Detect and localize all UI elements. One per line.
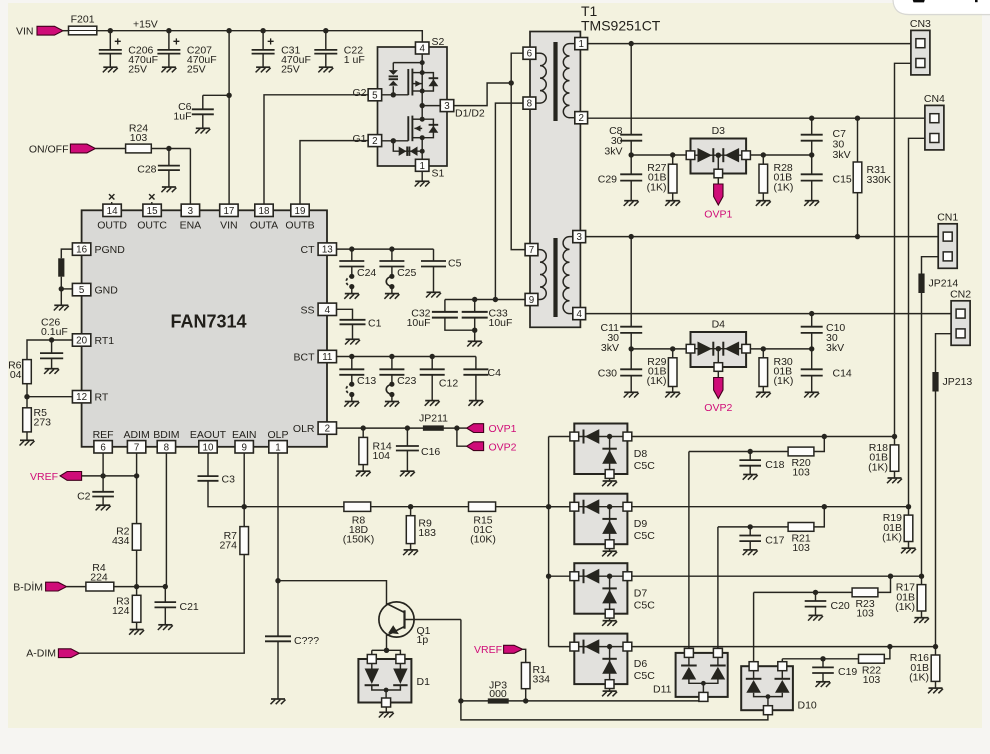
pin 7 ADIM xyxy=(123,429,149,454)
svg-text:D9: D9 xyxy=(634,518,648,530)
svg-text:(1K): (1K) xyxy=(909,672,929,684)
svg-text:D7: D7 xyxy=(634,588,648,600)
svg-text:C13: C13 xyxy=(357,375,376,387)
svg-text:JP214: JP214 xyxy=(929,278,959,290)
transformer T1 label xyxy=(581,3,661,34)
wire D9 feed xyxy=(549,506,571,508)
wire D8 line xyxy=(631,436,894,438)
resistor R18 01B (1K) xyxy=(868,434,902,483)
svg-text:25V: 25V xyxy=(281,64,300,76)
body diode lower xyxy=(422,119,438,138)
wire BDIM vertical xyxy=(165,453,167,587)
svg-text:C12: C12 xyxy=(439,378,458,390)
diode D7 C5C xyxy=(570,563,655,626)
svg-text:1uF: 1uF xyxy=(173,111,191,123)
svg-text:(1K): (1K) xyxy=(647,181,667,193)
transformer T1 body xyxy=(530,32,580,328)
wire D6 feed xyxy=(549,646,571,648)
wire D3 bus xyxy=(631,154,812,156)
svg-text:434: 434 xyxy=(112,535,130,547)
junction pin2-C7 xyxy=(809,116,814,121)
wire D8 feed xyxy=(549,436,571,438)
svg-text:1: 1 xyxy=(275,442,280,453)
resistor R2 434 xyxy=(112,524,141,551)
pin 7 xyxy=(525,244,540,257)
wire ON/OFF to R24 xyxy=(95,148,125,150)
capacitor C16 xyxy=(396,428,441,476)
node ON/OFF label xyxy=(29,143,69,155)
svg-text:12: 12 xyxy=(76,392,87,403)
wire R7 to EAIN xyxy=(243,453,245,527)
junction drain stub lower xyxy=(420,117,425,122)
transistor Q1 1p xyxy=(379,602,461,646)
resistor R7 274 xyxy=(219,527,248,555)
svg-text:3kV: 3kV xyxy=(833,149,851,161)
pin 4 SS xyxy=(300,303,336,316)
svg-text:ON/OFF: ON/OFF xyxy=(29,143,69,155)
junction C32/C33 bottom xyxy=(472,328,477,333)
junction EAIN-bus xyxy=(242,504,247,509)
junction RT node xyxy=(24,394,29,399)
junction pin2-R31 xyxy=(855,116,860,121)
capacitor C2 xyxy=(77,491,114,511)
junction GND xyxy=(59,286,64,291)
svg-text:OUTA: OUTA xyxy=(250,220,278,232)
junction pin4-C10 xyxy=(809,311,814,316)
wire Q1 top xyxy=(278,581,387,605)
junction column-D7 xyxy=(546,574,551,579)
svg-text:3: 3 xyxy=(444,101,450,112)
svg-text:S2: S2 xyxy=(432,36,445,48)
wire VIN to fuse xyxy=(63,30,69,32)
wire R6 to RT xyxy=(27,384,72,397)
svg-text:FAN7314: FAN7314 xyxy=(170,312,246,332)
input arrow VIN xyxy=(37,26,63,35)
svg-text:BCT: BCT xyxy=(294,352,316,364)
pin 1 S1 xyxy=(415,159,444,179)
junction base-wire1 xyxy=(458,698,463,703)
svg-text:C17: C17 xyxy=(765,534,784,546)
resistor R29 01B (1K) xyxy=(647,349,681,398)
capacitor C11 30 3kV xyxy=(601,237,643,354)
capacitor C14 xyxy=(801,349,852,398)
svg-text:OVP1: OVP1 xyxy=(704,209,732,221)
svg-text:+: + xyxy=(267,35,274,49)
svg-text:103: 103 xyxy=(863,674,881,686)
junction OLP-Q1 xyxy=(275,578,280,583)
junction bus2-R29 xyxy=(670,346,675,351)
svg-text:G2: G2 xyxy=(352,87,366,99)
diode D4 xyxy=(686,319,750,372)
transistor Q-lower mosfet xyxy=(408,116,422,142)
secondary winding lower xyxy=(563,237,569,314)
core bar upper xyxy=(553,42,557,121)
capacitor C25 xyxy=(379,249,416,299)
capacitor C206 470uF 25V xyxy=(99,31,158,76)
wire source to S1 xyxy=(421,138,423,160)
pin 3 ENA xyxy=(180,204,202,232)
primary winding lower xyxy=(540,250,546,300)
junction bus2-R30 xyxy=(761,346,766,351)
junction pin8-pin9 xyxy=(493,297,498,302)
wire rail to S2 xyxy=(421,30,423,42)
svg-text:SS: SS xyxy=(300,304,314,316)
junction rail-C206 xyxy=(108,28,113,33)
jumper JP211 xyxy=(419,412,448,431)
resistor R24 103 xyxy=(126,123,152,153)
svg-text:OUTD: OUTD xyxy=(97,220,127,232)
svg-text:C29: C29 xyxy=(598,173,617,185)
junction C26 tap xyxy=(49,337,54,342)
pin 12 RT xyxy=(72,391,108,404)
capacitor C1 xyxy=(340,318,382,345)
svg-text:TMS9251CT: TMS9251CT xyxy=(581,18,661,34)
svg-text:104: 104 xyxy=(373,450,391,462)
junction zener top xyxy=(420,60,425,65)
diode D3 xyxy=(686,125,750,178)
svg-text:7: 7 xyxy=(529,245,534,256)
junction BCT-C23 xyxy=(389,354,394,359)
pin 2 G1 xyxy=(352,133,381,147)
inductor ferrite bead xyxy=(58,258,64,276)
svg-text:330K: 330K xyxy=(867,174,892,186)
input arrow ON/OFF xyxy=(70,144,95,153)
wire SS row xyxy=(337,309,353,320)
core bar lower xyxy=(553,238,557,317)
svg-text:BDIM: BDIM xyxy=(153,429,179,441)
jumper JP3 000 xyxy=(488,680,509,704)
connector CN3 xyxy=(910,18,931,75)
svg-text:103: 103 xyxy=(856,607,874,619)
svg-text:CN3: CN3 xyxy=(910,18,931,30)
junction source stub xyxy=(420,89,425,94)
wire +15V rail xyxy=(97,30,423,32)
wire column vertical xyxy=(548,437,550,647)
svg-text:8: 8 xyxy=(527,99,533,110)
svg-text:274: 274 xyxy=(219,540,237,552)
resistor R14 104 xyxy=(356,428,392,476)
resistor R1 334 xyxy=(521,663,550,689)
junction source stub lower xyxy=(420,135,425,140)
wire D7 line xyxy=(631,575,921,577)
junction bus-R9 xyxy=(408,504,413,509)
resistor R9 183 xyxy=(403,507,436,555)
wire feed to pin6 xyxy=(511,53,523,83)
svg-text:(150K): (150K) xyxy=(343,533,375,545)
wire A-DIM to R7 xyxy=(79,555,244,654)
svg-text:1p: 1p xyxy=(417,634,429,646)
wire D7 feed xyxy=(549,575,571,577)
svg-text:CN1: CN1 xyxy=(937,211,958,223)
pin 1 xyxy=(570,38,588,51)
wire R4 to C21 xyxy=(114,586,166,588)
pin 20 RT1 xyxy=(72,334,114,347)
capacitor C29 xyxy=(598,155,642,206)
svg-text:RT1: RT1 xyxy=(95,335,115,347)
capacitor C13 xyxy=(339,357,376,407)
junction C28 tap xyxy=(166,146,171,151)
svg-text:25V: 25V xyxy=(128,64,147,76)
junction gate-zener lower xyxy=(391,138,396,143)
svg-text:1: 1 xyxy=(419,161,424,172)
connector CN1 xyxy=(937,211,958,268)
input arrow VREF 2 xyxy=(504,645,523,653)
wire D9 line xyxy=(631,506,908,508)
wire wire1 xyxy=(461,700,699,702)
wire GND pin xyxy=(61,288,72,290)
pin 11 BCT xyxy=(294,350,337,363)
svg-text:ENA: ENA xyxy=(180,220,202,232)
zener pair upper xyxy=(389,63,423,95)
svg-text:C5C: C5C xyxy=(634,530,655,542)
svg-text:D6: D6 xyxy=(634,658,648,670)
svg-text:0.1uF: 0.1uF xyxy=(41,326,68,338)
svg-text:C24: C24 xyxy=(357,267,376,279)
svg-text:3: 3 xyxy=(576,232,582,243)
svg-text:D3: D3 xyxy=(712,125,726,137)
wire Q1 emitter xyxy=(386,635,388,651)
wire pin4 line xyxy=(586,313,952,315)
svg-text:14: 14 xyxy=(107,206,118,217)
svg-text:OVP2: OVP2 xyxy=(704,402,732,414)
resistor R19 01B (1K) xyxy=(882,504,916,553)
junction bus-C8 xyxy=(629,152,634,157)
svg-text:VIN: VIN xyxy=(16,26,34,38)
wire pin3(fet) to primaries xyxy=(454,83,511,106)
body diode upper xyxy=(422,73,438,91)
pin 3 xyxy=(570,231,586,244)
ground D1 xyxy=(379,707,394,718)
svg-text:183: 183 xyxy=(418,527,436,539)
pin 4 S2 xyxy=(415,36,444,55)
svg-text:334: 334 xyxy=(533,674,551,686)
svg-text:D11: D11 xyxy=(653,684,672,696)
svg-text:VREF: VREF xyxy=(474,644,502,656)
svg-text:OVP1: OVP1 xyxy=(489,423,517,435)
wire BCT row xyxy=(337,356,476,358)
pin 17 VIN xyxy=(220,204,238,232)
ground below S1 xyxy=(415,171,430,186)
svg-text:OUTB: OUTB xyxy=(285,220,314,232)
svg-text:C14: C14 xyxy=(833,367,852,379)
svg-text:C19: C19 xyxy=(838,666,857,678)
wire wire2 xyxy=(461,701,768,720)
pin 3 D1/D2 xyxy=(440,100,485,120)
svg-text:OLP: OLP xyxy=(267,429,288,441)
capacitor C19 / resistor R22 103 xyxy=(782,644,892,687)
fuse F201 xyxy=(69,13,97,35)
svg-text:C???: C??? xyxy=(294,635,319,647)
wire VREF to R1 xyxy=(523,649,526,662)
svg-text:103: 103 xyxy=(792,542,810,554)
junction bus-R28 xyxy=(761,152,766,157)
svg-text:C28: C28 xyxy=(137,164,156,176)
svg-text:C3: C3 xyxy=(222,473,236,485)
wire B-DIM to R4 xyxy=(67,586,86,588)
junction D1 split xyxy=(384,648,389,653)
wire CN4 lower xyxy=(909,138,925,506)
capacitor C7 30 3kV xyxy=(801,118,851,161)
junction BDIM row C21 xyxy=(163,584,168,589)
junction rail-VIN-pin xyxy=(226,28,231,33)
svg-text:04: 04 xyxy=(10,369,22,381)
svg-text:D10: D10 xyxy=(798,700,817,712)
svg-text:10uF: 10uF xyxy=(407,317,431,329)
svg-text:VIN: VIN xyxy=(220,220,238,232)
jumper JP213 xyxy=(932,372,972,392)
svg-text:CT: CT xyxy=(301,244,316,256)
resistor R17 01B (1K) xyxy=(895,574,929,623)
svg-text:20: 20 xyxy=(76,336,87,347)
svg-text:25V: 25V xyxy=(187,64,206,76)
wire pin2 line xyxy=(588,117,925,119)
diode D6 C5C xyxy=(570,634,655,697)
capacitor C33 10uF xyxy=(462,300,513,331)
wire Q1 base down xyxy=(460,620,462,701)
node OVP2 label xyxy=(489,441,517,453)
wire R1 to wire1 xyxy=(525,689,527,701)
wire bus through D3 xyxy=(0,0,1,1)
resistor R8 18D (150K) xyxy=(343,502,375,545)
pin 8 BDIM xyxy=(153,429,179,454)
svg-text:C5C: C5C xyxy=(634,670,655,682)
node A-DIM label xyxy=(26,648,56,660)
capacitor C3 xyxy=(198,473,236,485)
svg-text:19: 19 xyxy=(295,206,306,217)
junction OLR-C16 xyxy=(405,425,410,430)
capacitor C24 xyxy=(339,249,376,299)
svg-text:VREF: VREF xyxy=(30,471,58,483)
input arrow B-DIM xyxy=(46,582,67,591)
junction gate-zener upper xyxy=(391,92,396,97)
diode D1 xyxy=(358,650,430,707)
wire R15 to column xyxy=(496,506,571,508)
resistor R15 01C (10K) xyxy=(469,502,496,545)
svg-text:RT: RT xyxy=(95,392,109,404)
capacitor C18 / resistor R20 103 xyxy=(689,434,827,652)
capacitor C5 xyxy=(421,249,462,297)
wire OUTB to G1 xyxy=(300,141,368,205)
svg-text:16: 16 xyxy=(76,245,87,256)
svg-text:(1K): (1K) xyxy=(895,601,915,613)
ground R5 xyxy=(20,432,35,446)
wire OVP1 stub xyxy=(457,427,467,429)
diode D11 xyxy=(653,648,728,701)
junction primary feed xyxy=(509,80,514,85)
svg-text:7: 7 xyxy=(134,442,139,453)
pin 5 G2 xyxy=(352,87,381,101)
op-amp U1 FAN7314 body xyxy=(82,210,327,446)
node B-DIM label xyxy=(13,581,43,594)
junction bus-C15 xyxy=(809,152,814,157)
capacitor C8 30 3kV xyxy=(604,44,642,158)
svg-text:4: 4 xyxy=(419,44,425,55)
zener pair lower xyxy=(393,141,422,156)
capacitor C15 xyxy=(801,155,852,206)
svg-text:CN2: CN2 xyxy=(950,288,971,300)
pin 5 GND xyxy=(72,283,118,296)
junction C33 top xyxy=(472,297,477,302)
junction BDIM row R3 xyxy=(134,584,139,589)
wire R24 to ENA xyxy=(151,149,190,205)
resistor R16 01B (1K) xyxy=(909,644,943,693)
node VREF label xyxy=(30,471,58,483)
svg-text:CN4: CN4 xyxy=(924,93,945,105)
svg-text:+15V: +15V xyxy=(133,18,158,30)
svg-text:+: + xyxy=(173,35,180,49)
svg-text:4: 4 xyxy=(325,305,331,316)
svg-text:13: 13 xyxy=(322,245,333,256)
pin 1 OLP xyxy=(267,429,288,454)
svg-text:11: 11 xyxy=(322,352,332,363)
svg-text:ADIM: ADIM xyxy=(123,429,149,441)
capacitor C23 xyxy=(379,357,416,407)
capacitor C10 30 3kV xyxy=(801,314,846,354)
svg-text:C30: C30 xyxy=(598,367,617,379)
pin 9 xyxy=(525,293,540,306)
jumper JP214 xyxy=(918,274,958,294)
svg-text:G1: G1 xyxy=(352,133,366,145)
wire CN2 lower xyxy=(936,334,952,647)
svg-text:C2: C2 xyxy=(77,491,91,503)
wire EAOUT to C3 xyxy=(207,453,209,476)
wire OLR row xyxy=(337,427,457,429)
junction zener-S1 xyxy=(420,149,425,154)
resistor R30 01B (1K) xyxy=(756,349,794,398)
svg-text:103: 103 xyxy=(130,132,148,144)
capacitor C6 1uF xyxy=(173,95,213,133)
capacitor C30 xyxy=(598,349,642,398)
svg-text:9: 9 xyxy=(241,442,246,453)
capacitor C31 470uF 25V xyxy=(252,31,311,76)
svg-text:C16: C16 xyxy=(421,446,440,458)
pin 2 OLR xyxy=(293,422,337,435)
junction VREF-ADIM xyxy=(134,473,139,478)
connector CN4 xyxy=(924,93,945,150)
svg-text:3kV: 3kV xyxy=(604,145,622,157)
transistor Q-upper mosfet xyxy=(408,69,422,96)
wire OUTA to G2 xyxy=(264,95,368,204)
resistor R28 01B (1K) xyxy=(756,155,794,206)
svg-text:+: + xyxy=(114,35,121,49)
svg-text:18: 18 xyxy=(259,206,270,217)
no-connect X pin15 xyxy=(149,194,154,204)
junction BCT-C12 xyxy=(430,354,435,359)
pin 8 xyxy=(523,97,540,110)
junction pin1-C8 xyxy=(629,41,634,46)
svg-text:6: 6 xyxy=(100,442,106,453)
junction bus2-C10 xyxy=(809,346,814,351)
pin 14 OUTD xyxy=(97,204,127,232)
pin 9 EAIN xyxy=(232,429,257,454)
resistor R6 04 xyxy=(8,359,31,383)
svg-text:OLR: OLR xyxy=(293,423,315,435)
capacitor C32 10uF xyxy=(407,300,475,331)
svg-text:8: 8 xyxy=(164,442,170,453)
wire VIN-pin vertical xyxy=(228,31,230,205)
junction drain stub xyxy=(420,70,425,75)
svg-text:C15: C15 xyxy=(833,173,852,185)
svg-text:EAOUT: EAOUT xyxy=(190,429,227,441)
wire mid node xyxy=(421,91,423,119)
capacitor C22 1uF xyxy=(314,31,365,73)
junction rail-C22 xyxy=(323,28,328,33)
wire bead to GND xyxy=(60,277,62,289)
svg-text:GND: GND xyxy=(95,285,119,297)
svg-text:A-DIM: A-DIM xyxy=(26,648,56,660)
svg-text:(1K): (1K) xyxy=(882,532,902,544)
output arrow VREF xyxy=(60,472,82,481)
